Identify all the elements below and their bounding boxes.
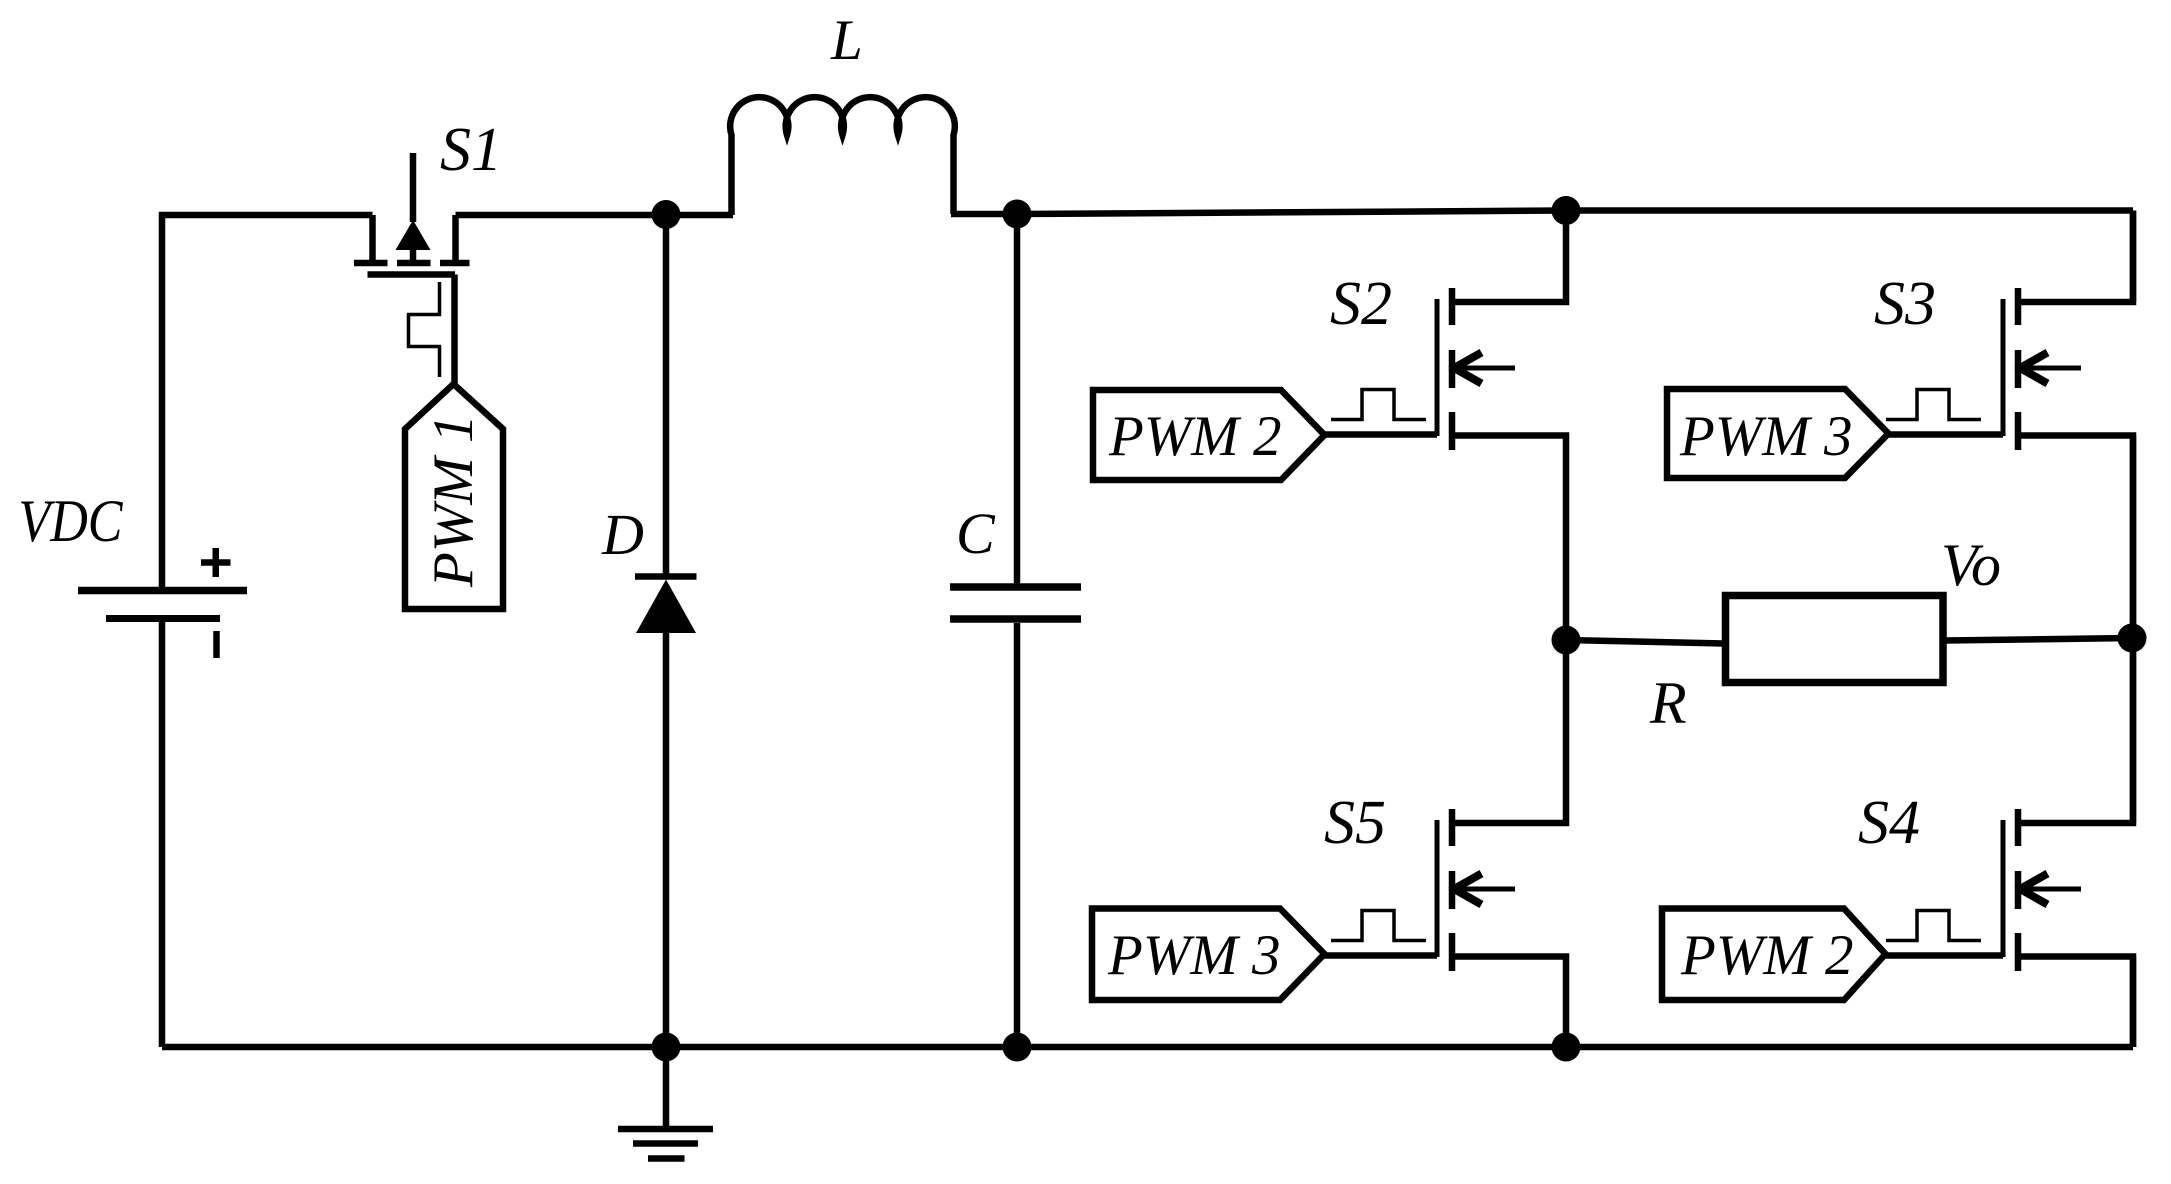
flag PWM 3 upper [1667, 389, 1889, 478]
wire top rail left segment [162, 215, 373, 587]
pulse symbol S1 [409, 282, 440, 377]
wire top rail after inductor [951, 211, 2133, 215]
svg-text:Vo: Vo [1941, 532, 2001, 598]
wire right rail middle [2130, 436, 2137, 824]
svg-text:PWM 1: PWM 1 [422, 414, 485, 588]
ground [618, 1047, 713, 1159]
node dot top-capacitor [1003, 200, 1032, 229]
flag PWM 2 lower [1662, 909, 1886, 1001]
transistor S5 [1325, 640, 1567, 1047]
wire bottom rail [162, 1044, 2133, 1051]
wire left rail lower [159, 622, 166, 1047]
capacitor C bottom plate [950, 615, 1081, 623]
transistor S1 [354, 153, 470, 384]
pulse symbol S4 [1886, 911, 1981, 941]
node dot bottom-capacitor [1003, 1033, 1032, 1062]
battery VDC plate long [78, 587, 247, 595]
resistor R wire left [1566, 640, 1724, 644]
resistor R wire right [1944, 638, 2133, 641]
svg-text:S2: S2 [1330, 270, 1392, 338]
wire right rail lower [2130, 957, 2137, 1048]
node dot top-S2 [1552, 196, 1581, 225]
node dot top-diode [652, 200, 681, 229]
wire top rail right segment [456, 212, 734, 219]
diode D triangle [636, 580, 696, 634]
transistor S2 [1325, 211, 1567, 641]
transistor S4 [1886, 640, 2134, 1047]
pulse symbol S2 [1331, 390, 1426, 420]
flag PWM 3 lower [1092, 909, 1325, 1001]
svg-text:S5: S5 [1324, 789, 1386, 857]
svg-text:S1: S1 [440, 116, 502, 184]
svg-text:R: R [1649, 670, 1687, 736]
capacitor C top lead [1014, 215, 1021, 584]
diode D lower lead [663, 633, 670, 1047]
svg-text:L: L [830, 9, 863, 72]
wire right rail upper [2130, 211, 2137, 303]
node dot bottom-S5 [1552, 1033, 1581, 1062]
inductor L [730, 97, 955, 215]
pulse symbol S5 [1331, 911, 1426, 941]
flag PWM 2 upper [1093, 390, 1325, 480]
node dot mid-right Vo [2118, 624, 2147, 653]
svg-text:D: D [601, 502, 644, 567]
flag PWM 1 [405, 384, 503, 609]
transistor S3 [1889, 211, 2134, 641]
battery VDC plate short [106, 615, 220, 622]
diode D cathode bar [635, 573, 697, 580]
svg-text:PWM 2: PWM 2 [1108, 405, 1282, 468]
svg-text:VDC: VDC [18, 489, 123, 555]
capacitor C bottom lead [1014, 623, 1021, 1047]
node dot bottom-diode [652, 1033, 681, 1062]
svg-text:PWM 3: PWM 3 [1107, 924, 1281, 987]
svg-text:S4: S4 [1858, 789, 1920, 857]
svg-text:PWM 3: PWM 3 [1679, 405, 1853, 468]
resistor R box [1726, 596, 1944, 683]
battery minus sign [213, 631, 220, 658]
diode D anode lead [663, 215, 670, 574]
capacitor C top plate [950, 583, 1081, 591]
svg-text:S3: S3 [1874, 270, 1936, 338]
pulse symbol S3 [1886, 390, 1981, 420]
svg-text:C: C [956, 501, 996, 566]
svg-text:PWM 2: PWM 2 [1680, 924, 1854, 987]
node dot mid-left [1552, 626, 1581, 655]
battery plus sign [201, 548, 231, 577]
